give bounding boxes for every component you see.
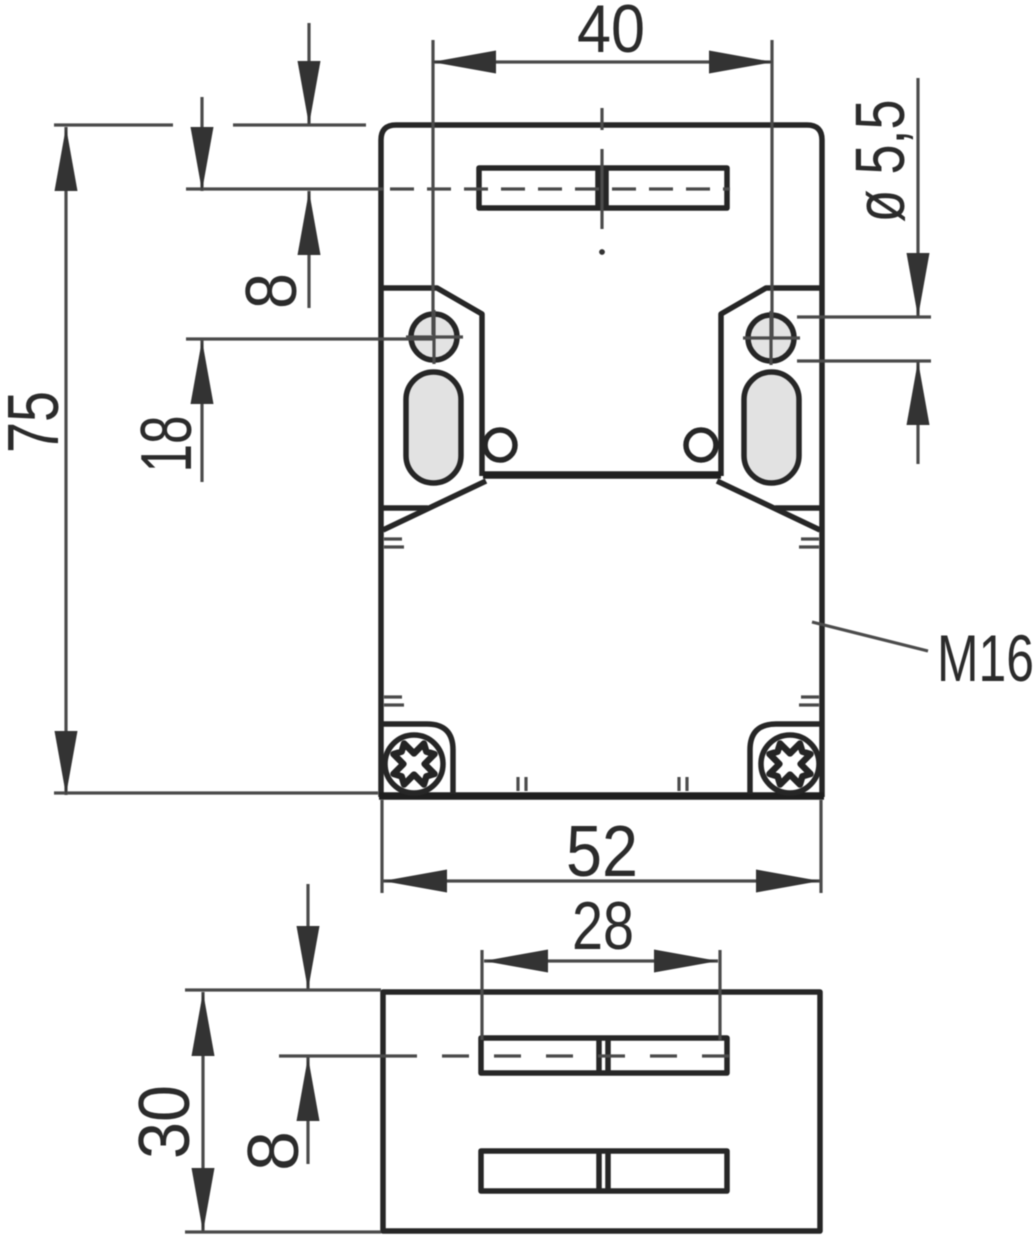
dimension dia 5,5 [797,315,931,318]
dimension M16 leader [812,622,928,651]
dimension 18 [200,97,203,191]
center mark [600,108,603,130]
bottom view slot 1 [481,1038,727,1073]
tick marks right lower [801,695,819,698]
right ear [721,288,820,476]
mounting slot top [479,168,727,208]
slot divider [595,166,601,210]
small circle right [686,430,716,460]
svg-text:52: 52 [566,812,638,892]
right chamfer [717,481,820,530]
dimension 28 [480,950,483,1040]
bottom view body [383,992,820,1231]
svg-text:ø 5,5: ø 5,5 [841,100,919,223]
tick marks bottom edge left pair [516,777,519,791]
svg-text:M16: M16 [937,621,1034,695]
dimension 8 top view [307,23,310,125]
dimension 52 [380,800,383,893]
tick marks left upper [384,537,402,540]
slotted hole right [744,372,799,483]
dimension 30 [185,988,381,991]
left ear [383,288,482,476]
tick marks right upper [801,537,819,540]
svg-text:75: 75 [0,391,74,453]
mid rib line [483,471,721,479]
corner box left [383,724,453,794]
svg-text:40: 40 [577,0,645,67]
slot dashed center line [186,187,383,190]
screw hole left [411,314,457,360]
svg-text:30: 30 [125,1085,205,1159]
dimension 40 [431,40,434,335]
dimension 8 bottom view [306,884,309,990]
svg-text:18: 18 [127,416,207,473]
svg-text:8: 8 [232,273,312,309]
tick marks bottom edge right pair [677,777,680,791]
left chamfer [383,481,486,530]
screw hole right [748,315,794,361]
dimension 75 [54,123,173,126]
body bottom edge [379,792,824,800]
slot 1 dashed center line [279,1054,390,1057]
tick marks left lower [384,695,402,698]
phillips screw left [385,735,443,793]
small circle left [485,430,515,460]
body outline top view [381,125,822,797]
svg-text:8: 8 [234,1131,314,1171]
svg-text:28: 28 [572,888,634,964]
phillips screw right [761,735,819,793]
bottom view slot 2 [481,1151,727,1191]
slotted hole left [406,372,461,483]
corner box right [750,724,820,794]
